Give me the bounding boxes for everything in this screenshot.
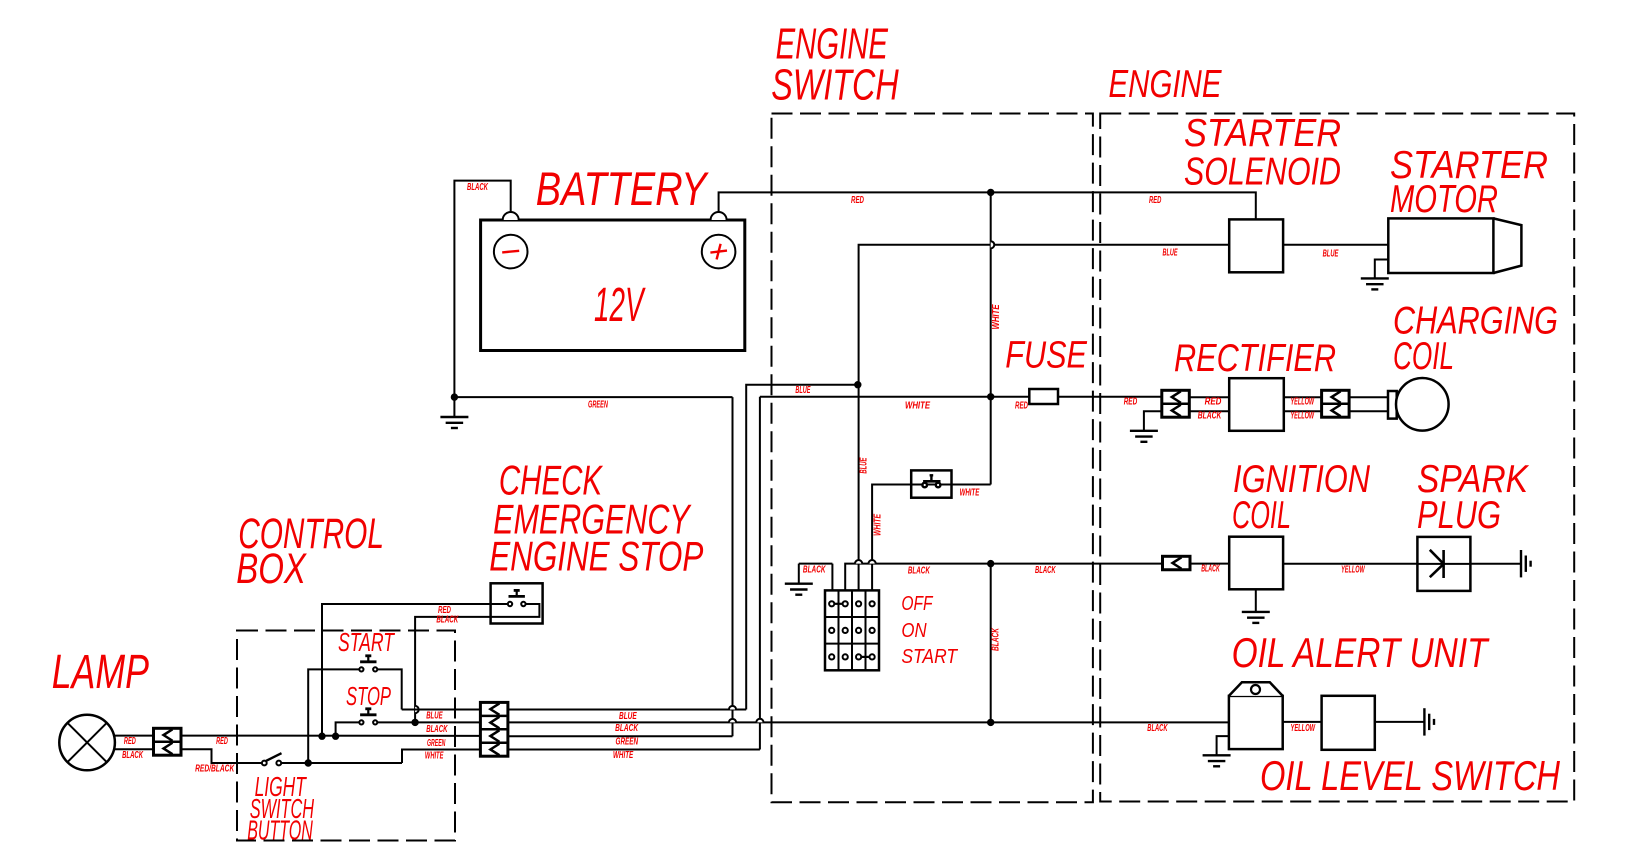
- ground starter motor: [1361, 278, 1389, 289]
- svg-text:YELLOW: YELLOW: [1291, 397, 1315, 408]
- wire to ground: [453, 397, 455, 417]
- wire GREEN vertical: [732, 397, 734, 736]
- ground oil level switch chassis: [1424, 708, 1434, 735]
- wire BLACK to oil alert unit: [508, 721, 1229, 723]
- svg-text:BLACK: BLACK: [122, 750, 144, 761]
- wire BLACK key switch to ignition coil: [845, 564, 1162, 591]
- svg-text:RECTIFIER: RECTIFIER: [1174, 337, 1336, 380]
- svg-text:START: START: [338, 627, 395, 657]
- svg-text:OFF: OFF: [901, 593, 933, 615]
- node RED junction: [988, 189, 994, 195]
- svg-text:START: START: [901, 646, 958, 668]
- wire BLACK battery negative: [454, 181, 510, 398]
- svg-text:BLACK: BLACK: [908, 565, 931, 576]
- wire BLACK vertical: [990, 564, 992, 723]
- svg-text:MOTOR: MOTOR: [1390, 178, 1498, 221]
- wire BLACK stop to connector: [377, 721, 480, 723]
- wire WHITE to key switch: [872, 485, 991, 591]
- svg-text:PLUG: PLUG: [1417, 494, 1501, 537]
- svg-text:OIL ALERT UNIT: OIL ALERT UNIT: [1232, 629, 1490, 676]
- wire WHITE light switch to junction: [281, 762, 402, 764]
- switch key matrix OFF/ON/START: [825, 590, 879, 670]
- svg-text:BLUE: BLUE: [795, 385, 810, 396]
- svg-text:RED: RED: [1149, 195, 1161, 206]
- svg-text:OIL LEVEL SWITCH: OIL LEVEL SWITCH: [1260, 752, 1561, 799]
- svg-text:YELLOW: YELLOW: [1291, 723, 1316, 734]
- wire BLACK connector to ignition coil: [1189, 563, 1229, 565]
- svg-text:BLACK: BLACK: [1201, 563, 1220, 574]
- svg-text:YELLOW: YELLOW: [1341, 564, 1365, 575]
- connector rectifier left 2-pin: [1162, 390, 1190, 417]
- ENGINE SWITCH dashed box: [772, 114, 1093, 803]
- svg-text:COIL: COIL: [1393, 335, 1454, 378]
- node BLACK oil junction: [988, 719, 994, 725]
- svg-text:WHITE: WHITE: [905, 401, 930, 412]
- svg-text:WHITE: WHITE: [873, 514, 884, 536]
- wire motor ground: [1375, 260, 1389, 279]
- wire BLACK emergency stop return: [415, 604, 539, 722]
- ENGINE dashed box: [1100, 114, 1574, 802]
- svg-text:RED: RED: [124, 736, 136, 747]
- wire WHITE vertical: [990, 192, 992, 484]
- svg-text:FUSE: FUSE: [1005, 335, 1087, 377]
- connector ignition 1-pin: [1163, 556, 1191, 569]
- svg-text:STARTER: STARTER: [1184, 112, 1341, 155]
- svg-text:BLUE: BLUE: [1163, 248, 1178, 259]
- svg-text:BATTERY: BATTERY: [536, 162, 710, 215]
- starter solenoid box: [1229, 219, 1283, 272]
- node battery ground junction: [451, 394, 457, 400]
- node fuse line junction: [988, 394, 994, 400]
- svg-text:RED/BLACK: RED/BLACK: [195, 764, 235, 775]
- svg-text:WHITE: WHITE: [613, 750, 633, 761]
- wire YELLOW rectifier out 2: [1284, 410, 1322, 412]
- switch STOP button: [359, 709, 377, 725]
- wire RED/BLACK to light switch: [181, 749, 262, 763]
- wire WHITE to engine switch: [508, 749, 760, 751]
- wire hop BLACK: [729, 719, 736, 723]
- svg-text:COIL: COIL: [1232, 494, 1291, 537]
- switch START button: [359, 656, 377, 672]
- svg-text:BLACK: BLACK: [1147, 723, 1168, 734]
- wire hop BLUE over GREEN: [729, 706, 736, 710]
- wire RED to rectifier: [1189, 396, 1229, 398]
- svg-text:SWITCH: SWITCH: [771, 60, 899, 109]
- wire YELLOW rectifier out 1: [1284, 396, 1322, 398]
- svg-text:RED: RED: [1015, 401, 1028, 412]
- svg-text:ENGINE: ENGINE: [1109, 63, 1223, 106]
- wire hop: [869, 560, 876, 564]
- wire YELLOW ignition to spark plug: [1283, 563, 1417, 565]
- node BLACK stop junction: [412, 719, 418, 725]
- wire RED lamp to control box: [181, 735, 480, 737]
- ground rectifier: [1130, 431, 1158, 442]
- ground spark plug chassis: [1521, 550, 1531, 577]
- charging coil: [1388, 378, 1449, 431]
- wire BLACK to rectifier: [1189, 410, 1229, 412]
- svg-text:BUTTON: BUTTON: [247, 815, 313, 846]
- connector lamp 2-pin: [154, 728, 182, 755]
- svg-text:12V: 12V: [594, 279, 646, 332]
- svg-text:GREEN: GREEN: [616, 737, 639, 748]
- wire YELLOW to charging coil 2: [1349, 410, 1389, 412]
- svg-text:BLACK: BLACK: [426, 724, 448, 735]
- wire ground to key switch: [799, 563, 833, 565]
- svg-text:RED: RED: [851, 195, 864, 206]
- wire WHITE vertical from control box: [759, 397, 761, 750]
- connector rectifier right 2-pin: [1322, 390, 1350, 417]
- svg-text:BLUE: BLUE: [859, 457, 870, 473]
- svg-text:SOLENOID: SOLENOID: [1184, 151, 1341, 194]
- svg-text:STOP: STOP: [346, 681, 391, 711]
- svg-text:BLACK: BLACK: [803, 564, 826, 575]
- wire YELLOW to charging coil 1: [1349, 396, 1389, 398]
- ground ignition coil: [1242, 612, 1270, 623]
- svg-text:RED: RED: [216, 736, 228, 747]
- wire BLUE to engine switch: [508, 709, 746, 711]
- svg-text:RED: RED: [1205, 397, 1222, 408]
- starter motor: [1388, 218, 1521, 273]
- svg-text:WHITE: WHITE: [991, 304, 1002, 329]
- wire oil level switch to ground: [1375, 721, 1425, 723]
- svg-text:BLACK: BLACK: [467, 182, 489, 193]
- wire YELLOW oil alert to oil level switch: [1283, 721, 1322, 723]
- wire RED lamp: [114, 735, 154, 737]
- wire oil alert ground: [1217, 736, 1229, 755]
- svg-text:BLUE: BLUE: [619, 711, 637, 722]
- wire ignition coil ground: [1255, 589, 1257, 612]
- spark plug: [1417, 537, 1470, 591]
- wire hop over BLUE: [991, 241, 995, 248]
- svg-text:YELLOW: YELLOW: [1291, 411, 1315, 422]
- wire RED to emergency stop: [322, 604, 508, 736]
- node STOP junction: [332, 733, 338, 739]
- CONTROL BOX dashed box: [237, 631, 455, 841]
- wire BLUE from control box: [746, 385, 858, 710]
- connector control box 4-pin: [480, 702, 508, 756]
- node BLUE junction: [855, 382, 861, 388]
- svg-text:WHITE: WHITE: [425, 751, 444, 762]
- svg-text:GREEN: GREEN: [588, 400, 608, 411]
- svg-text:LAMP: LAMP: [52, 646, 149, 699]
- wire GREEN: [454, 396, 732, 398]
- oil alert unit: [1229, 682, 1283, 749]
- oil level switch box: [1322, 696, 1375, 750]
- wire STOP button left: [336, 722, 360, 736]
- wire hop BLACK: [756, 719, 763, 723]
- svg-text:RED: RED: [1124, 397, 1138, 408]
- fuse F1: [1029, 389, 1058, 404]
- wire BLUE solenoid to starter motor: [1283, 244, 1388, 246]
- svg-text:BLACK: BLACK: [1198, 411, 1222, 422]
- node light switch junction: [305, 760, 311, 766]
- svg-text:ENGINE STOP: ENGINE STOP: [489, 532, 703, 579]
- wire RED battery positive to starter solenoid: [719, 192, 1256, 219]
- switch SW1 contacts: [922, 475, 940, 487]
- lamp: [59, 715, 115, 771]
- wire BLUE start to connector: [402, 709, 481, 711]
- wire START button right: [377, 669, 402, 709]
- wire hop over BLUE: [415, 706, 419, 713]
- wire rectifier ground: [1144, 411, 1162, 431]
- svg-text:BLACK: BLACK: [1035, 565, 1056, 576]
- ignition coil box: [1229, 537, 1283, 590]
- wire hop: [855, 560, 862, 564]
- ground battery: [440, 417, 468, 428]
- svg-text:BOX: BOX: [236, 545, 307, 593]
- wire GREEN to engine switch: [508, 735, 733, 737]
- wire BLUE engine switch to starter solenoid: [859, 245, 1230, 591]
- wire START button left: [308, 669, 359, 763]
- switch emergency stop contacts: [508, 590, 526, 606]
- switch SW1 box: [911, 470, 951, 497]
- wire RED fuse to rectifier connector: [1058, 396, 1162, 398]
- svg-text:BLACK: BLACK: [990, 627, 1001, 651]
- wire WHITE step up: [402, 750, 480, 764]
- svg-text:BLACK: BLACK: [615, 723, 639, 734]
- battery 12V: [481, 212, 745, 351]
- svg-text:BLUE: BLUE: [1323, 249, 1339, 260]
- ground oil alert unit: [1203, 755, 1231, 766]
- svg-text:BLUE: BLUE: [426, 710, 443, 721]
- node BLACK junction: [988, 560, 994, 566]
- wire spark plug to ground: [1470, 563, 1521, 565]
- switch emergency stop box: [491, 583, 543, 623]
- svg-text:ON: ON: [901, 620, 927, 642]
- rectifier box: [1229, 378, 1284, 431]
- node START junction: [319, 733, 325, 739]
- svg-text:GREEN: GREEN: [427, 738, 446, 749]
- wire BLACK lamp: [114, 748, 154, 750]
- wire WHITE/RED to fuse: [760, 396, 1029, 398]
- ground engine switch: [785, 584, 813, 595]
- svg-text:WHITE: WHITE: [960, 488, 980, 499]
- svg-text:BLACK: BLACK: [436, 614, 458, 625]
- switch light switch button: [262, 753, 282, 765]
